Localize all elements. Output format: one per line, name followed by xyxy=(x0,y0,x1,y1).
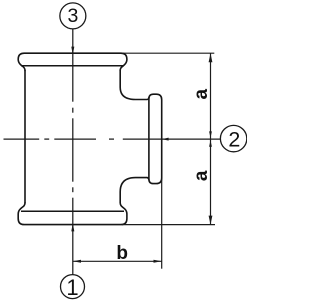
extension line top face xyxy=(122,52,214,54)
arrow a mid up xyxy=(209,140,212,147)
horizontal centerline xyxy=(4,138,40,140)
right body wall upper + fillet + branch top edge xyxy=(120,70,149,99)
right body wall lower + fillet + branch bottom edge xyxy=(120,178,149,203)
leader to node 1 xyxy=(72,198,74,275)
top bead inner line xyxy=(21,65,124,67)
left body side wall xyxy=(24,70,26,203)
bottom bead inner line xyxy=(21,210,124,212)
svg-text:1: 1 xyxy=(66,275,78,300)
dimension line b (horizontal) xyxy=(73,260,162,262)
arrow a bottom xyxy=(209,216,213,225)
arrow leader 3 pointing at top face xyxy=(71,47,74,55)
svg-text:b: b xyxy=(116,243,128,264)
extension line branch face for dim b xyxy=(161,180,163,269)
node circle 3 xyxy=(60,3,86,29)
branch socket bead (right outlet) xyxy=(149,94,162,183)
dimension line a (vertical) xyxy=(210,53,212,224)
svg-text:a: a xyxy=(191,170,212,181)
node circle 2 xyxy=(220,125,246,151)
arrow leader 1 pointing at bottom face xyxy=(71,223,74,231)
node circle 1 xyxy=(61,275,85,299)
leader from node 2 xyxy=(162,138,221,140)
svg-text:3: 3 xyxy=(67,5,78,27)
arrow a top xyxy=(209,53,213,62)
vertical centerline with leader from node 3 xyxy=(72,29,74,102)
extension line bottom face xyxy=(122,224,215,226)
arrow leader 2 pointing at branch face xyxy=(162,138,169,141)
arrow b left xyxy=(73,260,81,263)
bottom socket cap with bead xyxy=(18,203,127,225)
svg-text:a: a xyxy=(191,88,212,99)
svg-text:2: 2 xyxy=(228,127,240,151)
arrow b right xyxy=(154,260,162,263)
tee fitting body: top socket cap with bead xyxy=(18,53,127,70)
arrow a mid down xyxy=(209,131,212,138)
